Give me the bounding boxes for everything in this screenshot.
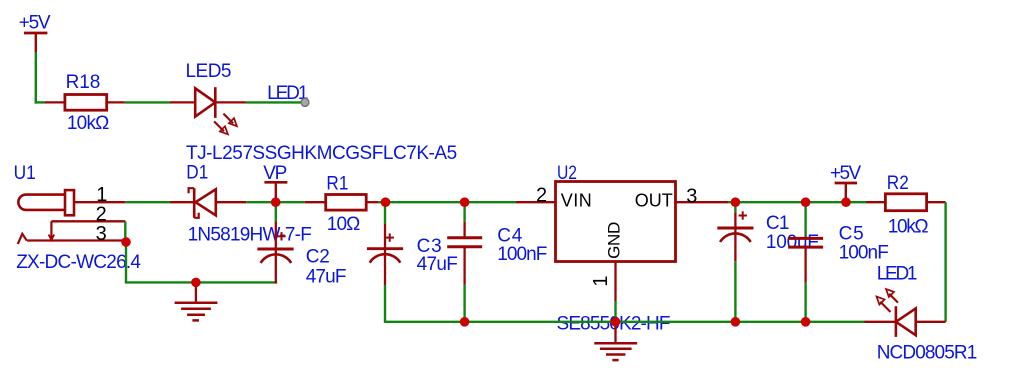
junction ground tap (left) <box>191 278 201 288</box>
svg-text:+5V: +5V <box>830 163 862 184</box>
svg-text:100nF: 100nF <box>839 243 889 264</box>
wire bottom-left rail <box>125 281 277 283</box>
regulator U2 <box>516 182 728 302</box>
svg-text:TJ-L257SSGHKMCGSFLC7K-A5: TJ-L257SSGHKMCGSFLC7K-A5 <box>186 143 457 164</box>
svg-text:C2: C2 <box>306 247 330 268</box>
svg-text:GND: GND <box>605 222 624 259</box>
junction VP <box>271 197 281 207</box>
svg-text:3: 3 <box>96 223 107 245</box>
wire U1 pin1 to D1 <box>125 201 170 203</box>
wire C4 junction to U2 VIN <box>465 201 516 203</box>
resistor R18 <box>45 95 125 111</box>
wire bottom rail (C3 to LED1) <box>385 321 465 323</box>
power +5V (right) <box>830 163 862 202</box>
svg-text:10kΩ: 10kΩ <box>888 216 929 237</box>
capacitor C2 (polarized) <box>257 202 293 283</box>
svg-text:R1: R1 <box>326 173 348 194</box>
wire LED5 to net LED1 <box>246 101 305 103</box>
capacitor C5 <box>788 202 823 322</box>
svg-text:NCD0805R1: NCD0805R1 <box>877 342 978 363</box>
capacitor C3 (polarized) <box>367 202 403 323</box>
resistor R2 <box>866 194 946 211</box>
svg-text:47uF: 47uF <box>306 266 347 287</box>
LED LED5 <box>170 87 246 134</box>
svg-text:1N5819HW-7-F: 1N5819HW-7-F <box>188 225 312 246</box>
svg-text:LED5: LED5 <box>186 61 232 82</box>
wire junction down to bottom-left rail <box>125 242 127 282</box>
wire D1 to VP node <box>246 201 275 203</box>
junction +5V right <box>841 197 851 207</box>
svg-text:VP: VP <box>263 163 287 184</box>
svg-text:D1: D1 <box>186 163 208 184</box>
wire +5V node to R2 <box>846 201 866 203</box>
svg-text:100nF: 100nF <box>497 244 547 265</box>
capacitor C1 (polarized) <box>717 202 753 322</box>
diode D1 (schottky) <box>170 188 246 218</box>
power VP <box>263 163 287 202</box>
svg-text:ZX-DC-WC26.4: ZX-DC-WC26.4 <box>16 252 141 273</box>
junction C4 bottom <box>460 317 470 327</box>
svg-text:3: 3 <box>686 186 697 208</box>
wire <box>465 321 616 323</box>
wire U1 pin2 to junction <box>124 221 126 242</box>
svg-text:C5: C5 <box>839 224 864 245</box>
wire C5 junction to +5V node <box>806 201 846 203</box>
junction C5 top <box>801 197 811 207</box>
wire <box>735 321 805 323</box>
ground (left) <box>175 282 218 320</box>
LED LED1 <box>865 289 946 337</box>
wire U2 GND to bottom rail <box>614 301 616 322</box>
junction R1 out <box>381 197 391 207</box>
wire R2 down right side <box>944 202 946 322</box>
svg-text:VIN: VIN <box>561 191 592 211</box>
svg-text:+5V: +5V <box>19 13 51 34</box>
junction U1 pins <box>121 237 131 247</box>
ground (center) <box>594 322 637 360</box>
wire C1 junction to C5 junction <box>735 201 805 203</box>
capacitor C4 <box>447 202 482 322</box>
svg-text:C1: C1 <box>766 213 790 234</box>
node LED1 endpoint <box>301 98 309 106</box>
wire VP to R1 <box>276 201 305 203</box>
junction C1 top <box>731 197 741 207</box>
svg-text:2: 2 <box>536 184 547 206</box>
svg-text:10kΩ: 10kΩ <box>67 113 110 134</box>
junction C1 bottom <box>731 317 741 327</box>
svg-text:R2: R2 <box>887 173 909 194</box>
svg-text:U1: U1 <box>14 163 36 184</box>
junction C5 bottom <box>801 317 811 327</box>
wire <box>806 321 865 323</box>
svg-text:10Ω: 10Ω <box>327 214 361 235</box>
resistor R1 <box>305 195 378 211</box>
wire R1 to junction <box>378 201 386 203</box>
svg-text:100uF: 100uF <box>766 232 819 253</box>
power +5V (top-left) <box>19 13 51 52</box>
junction C4 top <box>460 197 470 207</box>
svg-text:LED1: LED1 <box>877 264 918 285</box>
wire <box>616 321 736 323</box>
svg-text:47uF: 47uF <box>417 254 458 275</box>
wire +5V to R18 <box>35 52 45 104</box>
svg-text:OUT: OUT <box>635 191 673 211</box>
svg-text:U2: U2 <box>557 163 577 184</box>
junction U2 GND <box>611 317 621 327</box>
connector U1 <box>18 190 126 244</box>
wire R18 to LED5 <box>125 101 170 103</box>
svg-text:R18: R18 <box>66 72 101 93</box>
wire top rail R1 junction to C4 junction <box>386 201 465 203</box>
svg-text:1: 1 <box>590 275 612 286</box>
wire U2 OUT to C1 junction <box>728 201 735 203</box>
